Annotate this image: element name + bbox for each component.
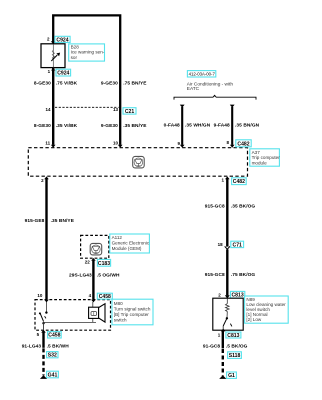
- svg-text:9-FA48: 9-FA48: [214, 123, 230, 129]
- svg-text:.5 BK/WH: .5 BK/WH: [47, 343, 70, 349]
- svg-text:C458: C458: [99, 294, 111, 300]
- svg-text:.35 WH/GN: .35 WH/GN: [185, 123, 211, 129]
- svg-text:.35 BN/YE: .35 BN/YE: [123, 123, 147, 129]
- svg-text:C71: C71: [233, 242, 243, 248]
- svg-text:module: module: [252, 160, 268, 165]
- svg-text:22: 22: [85, 259, 91, 264]
- svg-text:91-LG43: 91-LG43: [22, 343, 42, 349]
- svg-text:G1: G1: [228, 373, 235, 379]
- svg-text:9-GE30: 9-GE30: [101, 123, 118, 129]
- svg-text:.35 BN/YE: .35 BN/YE: [51, 218, 75, 224]
- svg-text:.35 BK/OG: .35 BK/OG: [231, 204, 256, 210]
- svg-text:91-GC8: 91-GC8: [203, 343, 221, 349]
- svg-text:18: 18: [218, 242, 224, 247]
- svg-text:.35 VI/BK: .35 VI/BK: [56, 123, 78, 129]
- svg-text:Module (GEM): Module (GEM): [112, 246, 142, 251]
- svg-text:C924: C924: [57, 71, 69, 77]
- svg-text:11: 11: [45, 140, 50, 145]
- svg-text:C813: C813: [227, 333, 239, 339]
- svg-text:C21: C21: [125, 109, 135, 115]
- svg-text:A112: A112: [112, 235, 123, 240]
- svg-text:10: 10: [37, 293, 43, 298]
- svg-text:.75 BN/YE: .75 BN/YE: [123, 80, 147, 86]
- svg-text:915-GC8: 915-GC8: [205, 272, 225, 278]
- svg-text:.75 VI/BK: .75 VI/BK: [56, 80, 78, 86]
- svg-text:14: 14: [45, 107, 51, 112]
- svg-text:.35 BN/GN: .35 BN/GN: [235, 123, 260, 129]
- svg-text:S118: S118: [229, 353, 241, 359]
- svg-text:8-GE30: 8-GE30: [34, 80, 51, 86]
- svg-text:G41: G41: [48, 373, 58, 379]
- svg-text:Generic Electronic: Generic Electronic: [112, 240, 150, 245]
- svg-text:EATC: EATC: [187, 86, 200, 92]
- svg-text:C458: C458: [48, 333, 60, 339]
- svg-text:915-GC8: 915-GC8: [205, 204, 225, 210]
- svg-text:.5 OG/WH: .5 OG/WH: [97, 272, 120, 278]
- svg-text:Turn signal switch: Turn signal switch: [114, 307, 151, 312]
- svg-text:.75 BK/OG: .75 BK/OG: [231, 272, 256, 278]
- svg-text:915-GE8: 915-GE8: [25, 218, 45, 224]
- svg-text:8-GE30: 8-GE30: [34, 123, 51, 129]
- svg-text:M80: M80: [114, 301, 123, 306]
- svg-text:C482: C482: [233, 179, 245, 185]
- svg-text:C183: C183: [98, 261, 110, 267]
- svg-text:9-GE30: 9-GE30: [101, 80, 118, 86]
- svg-text:switch: switch: [114, 318, 127, 323]
- svg-text:S32: S32: [48, 353, 57, 359]
- svg-text:sor: sor: [71, 55, 78, 60]
- svg-text:10: 10: [113, 140, 119, 145]
- svg-text:C482: C482: [237, 141, 249, 147]
- svg-text:0-FA48: 0-FA48: [164, 123, 180, 129]
- svg-text:13: 13: [113, 107, 119, 112]
- svg-text:A37: A37: [252, 150, 261, 155]
- svg-text:412-03A-00-7: 412-03A-00-7: [189, 72, 216, 77]
- svg-text:.5 BK/OG: .5 BK/OG: [226, 343, 248, 349]
- svg-text:[2] Low: [2] Low: [246, 317, 261, 322]
- svg-text:29S-LG43: 29S-LG43: [69, 272, 92, 278]
- svg-text:[B] Trip computer: [B] Trip computer: [114, 312, 149, 317]
- svg-text:Trip computer: Trip computer: [252, 155, 281, 160]
- svg-text:C924: C924: [56, 37, 68, 43]
